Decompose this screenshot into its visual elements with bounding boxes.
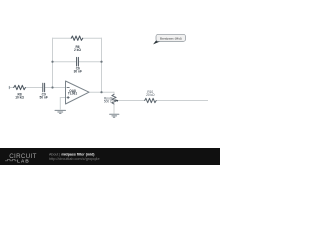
wire top rail right [82, 37, 102, 39]
wire C9 to op-amp minus input [45, 87, 65, 89]
node junction dot (inverting input) [51, 86, 53, 88]
resistor R6 [71, 36, 83, 40]
svg-text:About | midpass filter (mid): About | midpass filter (mid) [49, 152, 95, 156]
svg-text:2 kΩ: 2 kΩ [74, 48, 81, 52]
node flag Bandpass (Mid) pointer [153, 40, 161, 44]
svg-text:30 nF: 30 nF [74, 70, 82, 74]
potentiometer Rpot2 body [112, 94, 116, 104]
node junction dot (cap rail right) [100, 61, 102, 63]
wire input to R8 [9, 87, 14, 89]
wire op-amp output [89, 91, 114, 93]
potentiometer wiper arrow [114, 99, 118, 101]
svg-text:20 kΩ: 20 kΩ [146, 93, 155, 97]
node junction dot (cap rail left) [51, 61, 53, 63]
wire feedback left vertical [52, 38, 54, 88]
wire potentiometer bottom lead to ground [113, 104, 115, 114]
wire cap rail left [53, 61, 77, 63]
node flag Bandpass (Mid) box [156, 34, 186, 41]
wire output down to potentiometer [113, 92, 116, 95]
footer bar [0, 148, 220, 165]
resistor R8 [14, 85, 26, 89]
node junction dot (output) [100, 91, 102, 93]
op-amp minus pin symbol [67, 87, 69, 89]
svg-text:http://circuitlab.com/c/gropq4: http://circuitlab.com/c/gropq4e [49, 157, 100, 161]
wire wiper to R10 [118, 100, 145, 102]
ground (op-amp non-inverting) [55, 110, 66, 113]
CircuitLab logo: waveform [5, 159, 17, 161]
wire feedback right vertical [101, 38, 103, 92]
svg-text:10 kΩ: 10 kΩ [15, 96, 24, 100]
op-amp OA8 triangle [66, 81, 90, 104]
resistor R10 [145, 98, 157, 102]
svg-text:LAB: LAB [17, 158, 30, 164]
capacitor C6 [77, 57, 79, 66]
wire top rail left [52, 37, 72, 39]
wire R10 to output end [156, 100, 208, 102]
component value labels [15, 45, 155, 104]
wire op-amp plus input [60, 98, 65, 110]
svg-text:TL081: TL081 [68, 92, 77, 96]
capacitor C9 [43, 83, 45, 92]
svg-text:500 Ω: 500 Ω [104, 100, 113, 104]
svg-text:50 nF: 50 nF [40, 96, 48, 100]
svg-text:Bandpass (Mid): Bandpass (Mid) [160, 36, 182, 40]
op-amp plus pin symbol [67, 96, 69, 98]
wire cap rail right [79, 61, 102, 63]
input terminal [8, 86, 10, 88]
ground (potentiometer) [110, 114, 119, 117]
wire R8 to C9 [25, 87, 42, 89]
